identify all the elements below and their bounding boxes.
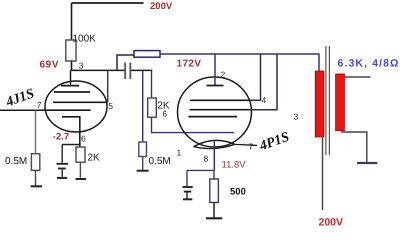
node common bar under 2K — [76, 178, 86, 180]
svg-text:3: 3 — [79, 61, 84, 71]
transformer T1 secondary winding — [336, 74, 345, 131]
transformer T1 primary winding — [315, 71, 324, 137]
node common bar under bypass cap — [57, 177, 67, 179]
wire 2K6 to grid V2 — [152, 117, 235, 132]
wire B+ rail to output transformer — [160, 53, 320, 55]
svg-text:4P1S: 4P1S — [257, 130, 292, 155]
wire grid leak branch — [35, 110, 37, 154]
wire 500 top lead — [213, 170, 215, 179]
wire OPT primary bottom to 200V — [322, 136, 324, 210]
node common bar under 0.5M — [31, 185, 42, 187]
svg-text:2K: 2K — [88, 153, 101, 164]
tube V1 envelope 4J1S — [45, 81, 107, 132]
svg-text:69V: 69V — [40, 60, 60, 71]
wire 2K to common — [79, 162, 81, 178]
svg-text:172V: 172V — [177, 59, 202, 70]
resistor 0.5M grid leak — [31, 154, 39, 171]
node common bar under bypass cap V2 — [183, 198, 192, 200]
svg-text:100K: 100K — [73, 34, 97, 45]
wire 100K bottom lead — [71, 61, 73, 71]
wire secondary top output — [344, 76, 370, 78]
resistor 0.5M grid leak V2 — [139, 142, 147, 157]
svg-text:0.5M: 0.5M — [149, 156, 171, 167]
svg-text:8: 8 — [204, 154, 209, 164]
electrode V1 plate line pin 5 — [53, 101, 108, 103]
wire 0.5M V2 to common — [142, 157, 144, 171]
wire grid resistor 0.5M branch — [142, 70, 144, 142]
svg-text:200V: 200V — [150, 1, 173, 12]
svg-text:6: 6 — [81, 134, 86, 144]
node common bar under 500 — [206, 217, 222, 219]
svg-text:1: 1 — [177, 148, 182, 158]
svg-text:11.8V: 11.8V — [222, 160, 247, 171]
svg-text:5: 5 — [108, 101, 113, 111]
wire pin 5 plate vertical — [107, 70, 109, 102]
svg-text:200V: 200V — [319, 217, 344, 227]
electrode V2 plate line — [190, 109, 252, 111]
wire coupling cap to grid network — [131, 69, 152, 71]
electrode V2 screen line — [190, 99, 250, 101]
electrode V2 grid line — [188, 116, 237, 118]
svg-text:6: 6 — [163, 110, 168, 119]
svg-text:2: 2 — [221, 70, 226, 80]
ground secondary — [357, 162, 377, 164]
resistor 100K — [66, 40, 76, 61]
electrode V1 grid line pin 7 — [42, 109, 91, 111]
wire 500 to common — [213, 203, 215, 219]
svg-text:500: 500 — [230, 187, 246, 198]
wire OPT primary top lead — [318, 54, 320, 73]
svg-text:7: 7 — [37, 100, 42, 110]
wire plate node V1 to coupling cap — [71, 69, 125, 71]
wire 0.5M to common — [35, 170, 37, 186]
wire pin 3 plate to rail — [252, 54, 278, 110]
wire pin 3 into tube — [70, 70, 72, 85]
electrode V2 cathode lens — [194, 140, 235, 148]
capacitor cathode bypass V1 — [61, 145, 63, 163]
resistor 500 cathode V2 — [210, 179, 219, 203]
wire branch up to R interstage — [117, 55, 134, 70]
wire cathode V2 down — [213, 142, 215, 171]
wire secondary bottom to ground — [341, 132, 367, 162]
electrode V2 top bar — [207, 85, 224, 87]
svg-text:0.5M: 0.5M — [5, 156, 27, 167]
resistor 2K cathode V1 — [76, 147, 85, 162]
electrode V1 line 2 — [54, 91, 90, 93]
capacitor coupling left plate — [124, 63, 126, 80]
wire pin 2 from rail into tube — [214, 54, 216, 86]
node common bar under 0.5M V2 — [137, 170, 149, 172]
svg-text:6.3K, 4/8Ω: 6.3K, 4/8Ω — [338, 57, 400, 69]
wire from 200V rail down to R 100K — [71, 3, 73, 40]
svg-text:-2.7: -2.7 — [53, 132, 69, 143]
wire grid stopper branch — [151, 70, 153, 98]
svg-text:7: 7 — [249, 142, 254, 152]
wire cathode node V2 — [187, 169, 214, 171]
resistor R (B+ dropper to output stage) — [134, 51, 160, 58]
electrode V1 top bar — [61, 85, 79, 87]
wire pin 7 stub — [235, 144, 257, 145]
tube V2 envelope 4P1S — [178, 77, 252, 147]
svg-text:4J1S: 4J1S — [3, 86, 36, 110]
capacitor coupling right plate — [129, 63, 131, 80]
wire pin 4 screen to rail — [250, 54, 261, 100]
electrode V1 cathode — [62, 117, 80, 147]
svg-text:4: 4 — [262, 95, 267, 105]
resistor 2K6 grid stopper — [148, 98, 157, 117]
capacitor cathode bypass V2 — [186, 170, 188, 186]
transformer T1 core — [325, 46, 327, 155]
wire B+ top rail — [72, 2, 144, 4]
wire cathode node V1 — [62, 144, 80, 146]
svg-text:3: 3 — [294, 112, 299, 122]
wire grid input pin 7 — [0, 109, 45, 111]
